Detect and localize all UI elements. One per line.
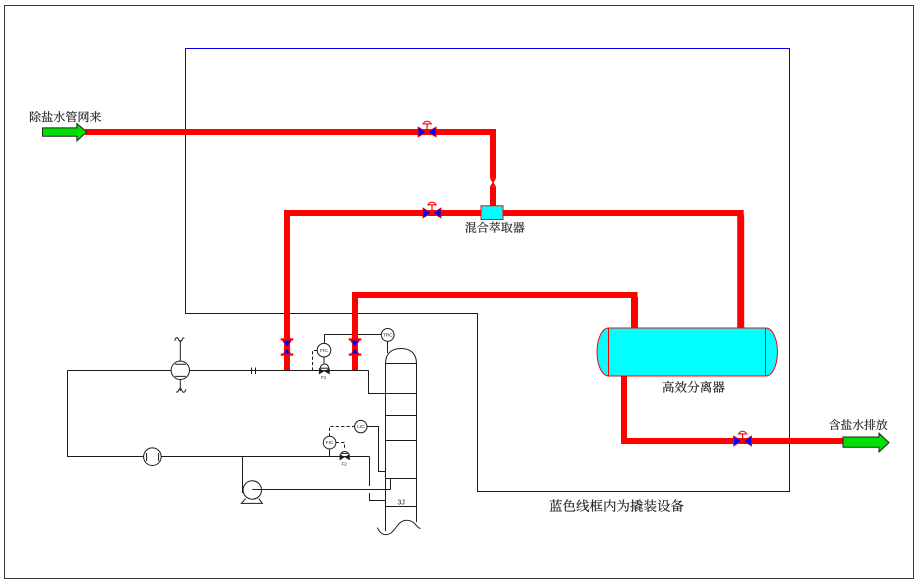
svg-text:FIC: FIC [326, 440, 334, 446]
svg-text:F2: F2 [342, 462, 348, 467]
svg-text:F1: F1 [321, 375, 327, 380]
svg-text:3J: 3J [398, 500, 405, 507]
svg-text:FIC: FIC [320, 348, 328, 354]
svg-text:LIC: LIC [357, 424, 365, 430]
svg-text:TRC: TRC [383, 333, 393, 339]
